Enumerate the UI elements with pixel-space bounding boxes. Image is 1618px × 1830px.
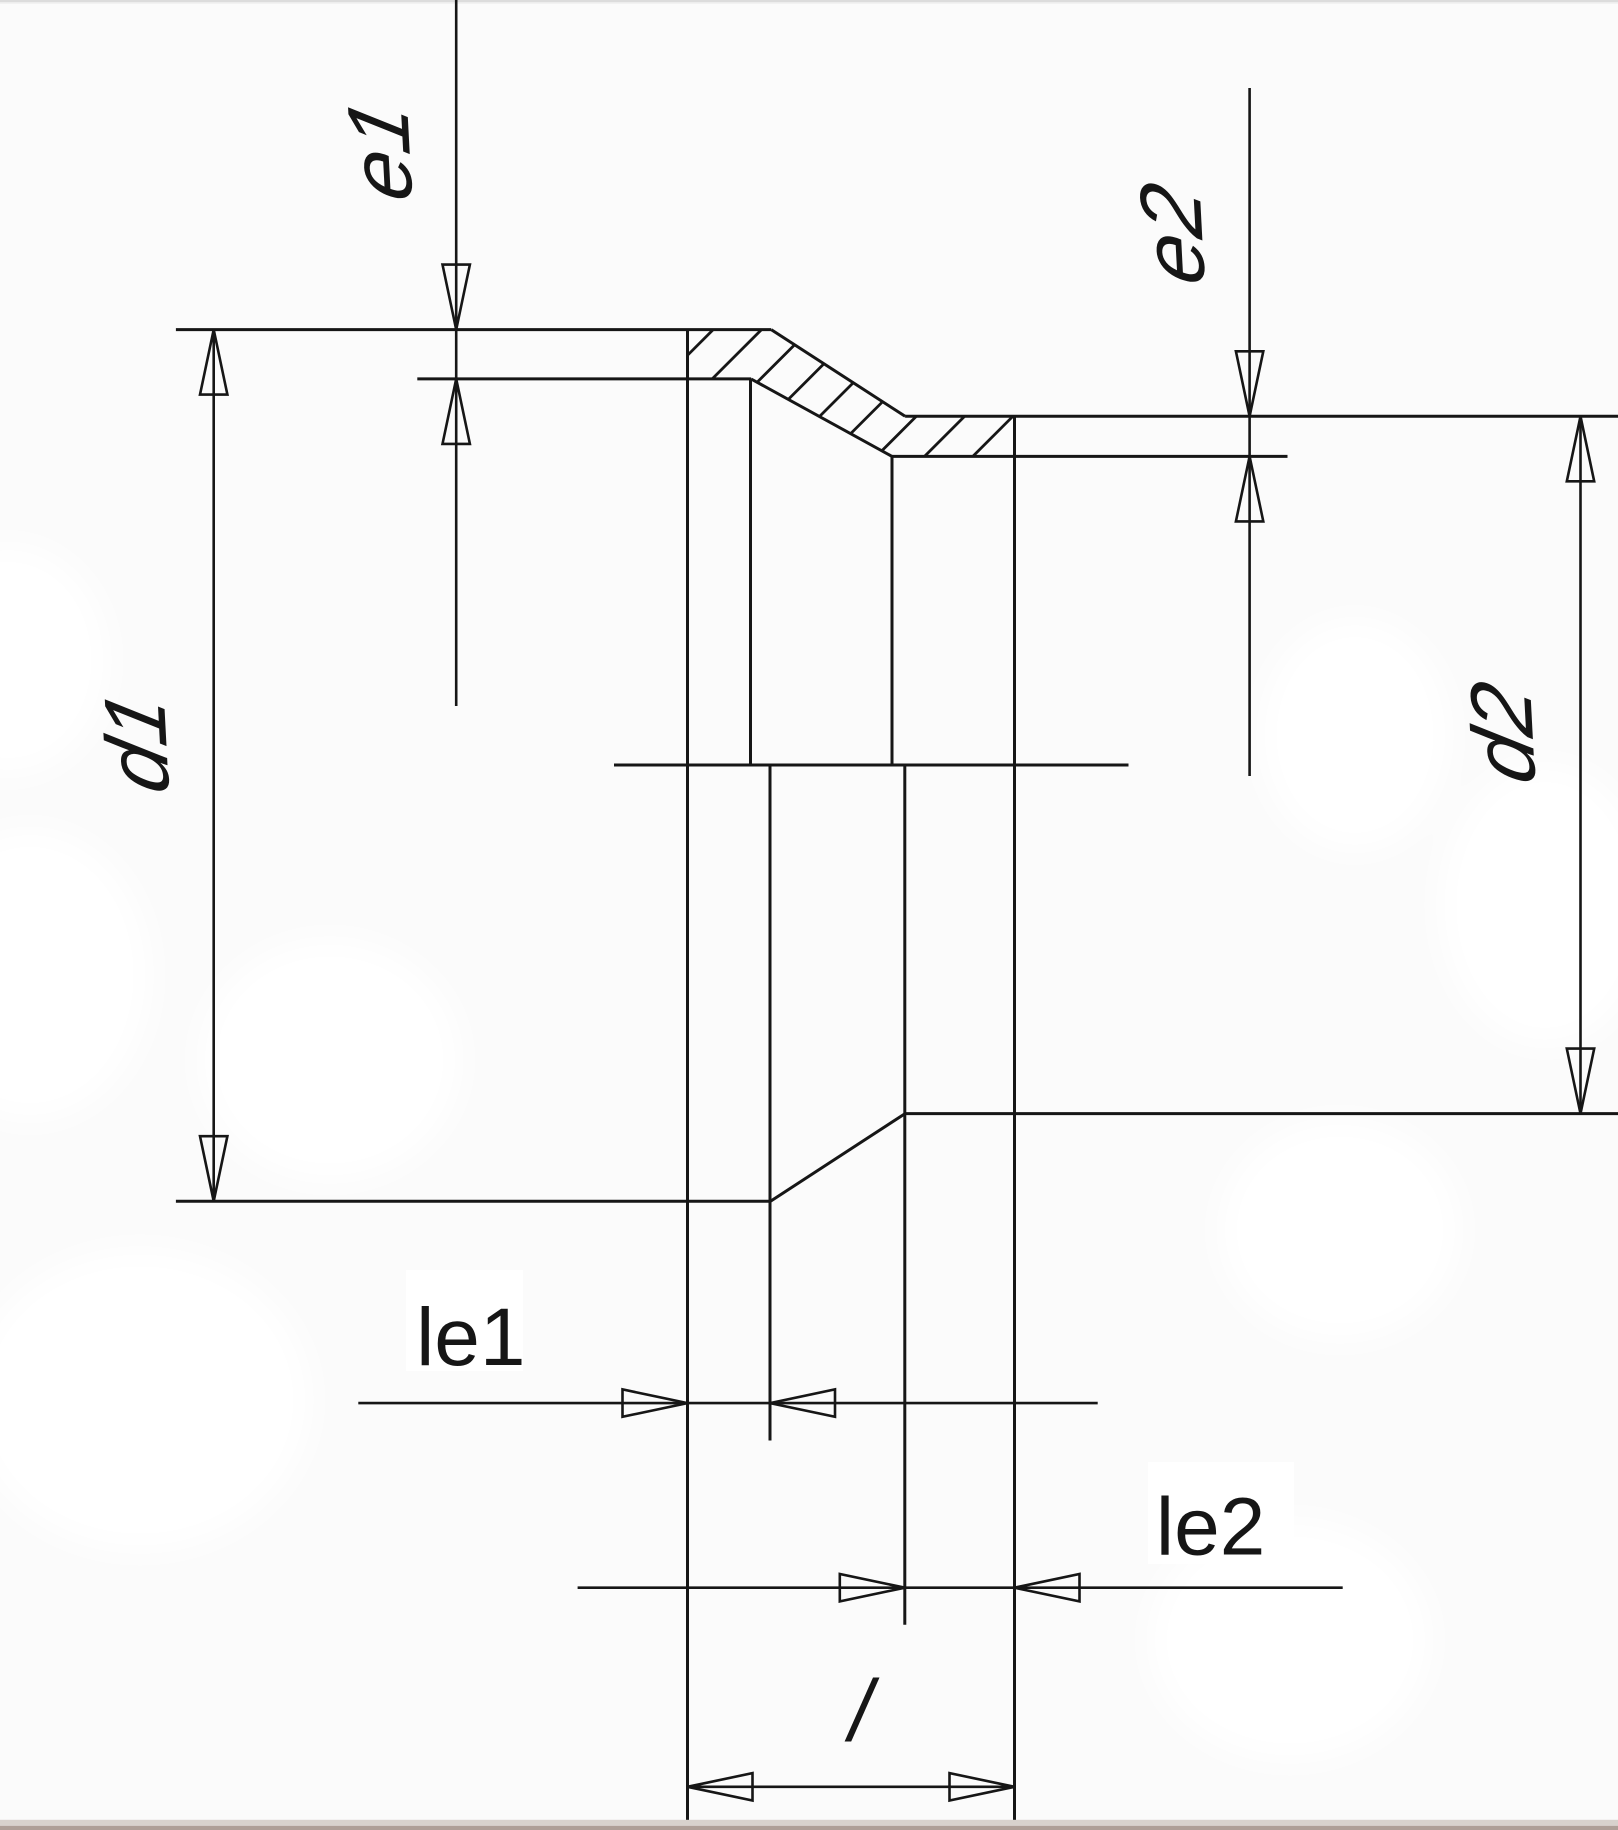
left mouth fusion plane vertical [686, 330, 689, 1824]
bottom brown-gray bar [0, 1826, 1618, 1830]
section hatching [583, 320, 1109, 460]
l arrow left (tip at x=687.5) [688, 1773, 753, 1800]
white label boxes [406, 1270, 523, 1371]
d1 arrow up [200, 330, 227, 395]
svg-text:le2: le2 [1156, 1481, 1265, 1572]
mid horizontal reference line [614, 764, 1129, 767]
le2 arrow left (tip at x=1014.5) [1015, 1574, 1080, 1601]
inner surface line small end, e2 extension [892, 455, 1288, 458]
bottom outline reducing slope [771, 1114, 906, 1202]
le2 dimension line [578, 1574, 1343, 1601]
le1 dimension line [358, 1389, 1097, 1416]
e2 arrow up [1236, 456, 1263, 521]
part top outer surface line (big end), also d1/e1 extension [176, 328, 771, 331]
inner corner vertical (small end) [891, 456, 894, 765]
d2 dimension line [1567, 416, 1594, 1113]
bottom light strip [0, 1820, 1618, 1826]
d1 dimension line [200, 330, 227, 1202]
d2 arrow down [1567, 1049, 1594, 1114]
outer reducing slope (top) [771, 330, 905, 417]
e1 arrow up (tip at inner surface) [443, 379, 470, 444]
l overall length dimension line [688, 1773, 1015, 1800]
small end outer surface line, also e2/d2 extension [905, 415, 1618, 418]
top edge gray strip [0, 0, 1618, 2]
e1 dimension line [443, 0, 470, 706]
l arrow right (tip at x=1014.5) [950, 1773, 1015, 1800]
outer corner vertical (big end) [769, 765, 772, 1441]
outer corner vertical (small end) [903, 765, 906, 1625]
e2 arrow down [1236, 351, 1263, 416]
svg-text:le1: le1 [416, 1292, 525, 1383]
right mouth fusion plane vertical [1013, 416, 1016, 1824]
e1 arrow down (tip at top surface) [443, 265, 470, 330]
d2 arrow up [1567, 416, 1594, 481]
le1 arrow left (tip at x=770) [770, 1389, 835, 1416]
inner surface line big end, e1 extension [417, 377, 751, 380]
le1 arrow right (tip at x=687.5) [623, 1389, 688, 1416]
d1 arrow down [200, 1136, 227, 1201]
bottom outline big end [176, 1200, 771, 1203]
e2 dimension line [1236, 88, 1263, 776]
label l (italic bar) [845, 1678, 880, 1742]
bottom outline small end [905, 1112, 1618, 1115]
le2 arrow right (tip at x=904.8) [840, 1574, 905, 1601]
inner reducing slope [751, 379, 892, 457]
inner corner vertical (big end) [749, 379, 752, 765]
faint white watermark blobs [0, 545, 1618, 1760]
